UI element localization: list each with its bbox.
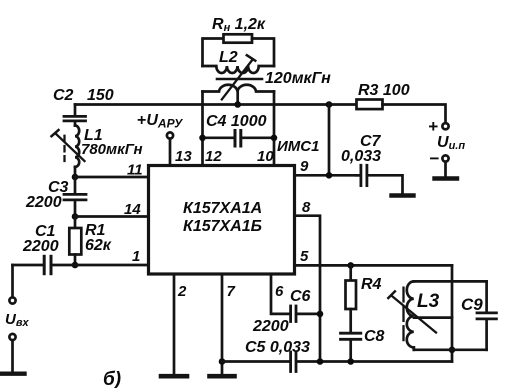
svg-text:1: 1 <box>132 248 140 265</box>
svg-text:R3 100: R3 100 <box>358 82 410 99</box>
node dot R4 top <box>347 262 354 269</box>
svg-text:11: 11 <box>127 162 143 179</box>
wire pin 1 right part <box>51 264 148 267</box>
core of L3 (dashed) <box>402 288 404 343</box>
wire input drop <box>11 265 14 298</box>
node dot C4 left <box>199 135 206 142</box>
svg-text:150: 150 <box>87 87 114 104</box>
svg-text:0,033: 0,033 <box>341 148 381 165</box>
svg-text:10: 10 <box>257 148 274 165</box>
svg-text:C5 0,033: C5 0,033 <box>245 339 310 356</box>
node dot rail to pin9 branch <box>326 101 333 108</box>
wire L3 branch right vertical <box>451 265 454 361</box>
capacitor C4 <box>203 131 275 147</box>
svg-text:Uи.п: Uи.п <box>437 134 465 152</box>
svg-text:C2: C2 <box>53 87 74 104</box>
svg-text:6: 6 <box>275 283 284 300</box>
capacitor C7 <box>356 165 403 194</box>
wire minus terminal to ground <box>444 162 447 177</box>
svg-text:120мкГн: 120мкГн <box>265 70 331 87</box>
node dot bottom rail R4 <box>347 358 354 365</box>
wire pin 9 <box>295 174 360 177</box>
ground Uвх <box>2 372 25 376</box>
capacitor C1 <box>44 256 51 273</box>
capacitor C8 <box>341 333 361 361</box>
svg-text:62к: 62к <box>85 237 112 254</box>
terminal Uвх top <box>9 297 15 303</box>
resistor R4 <box>346 265 357 331</box>
svg-text:9: 9 <box>300 158 309 175</box>
arrow of L2 <box>222 55 256 99</box>
svg-text:7: 7 <box>227 283 236 300</box>
arrow of L3 <box>388 291 436 332</box>
svg-text:8: 8 <box>302 199 311 216</box>
terminal Uвх bottom <box>9 334 15 340</box>
wire pin 10 vertical <box>273 92 276 166</box>
core of L2 <box>217 78 262 81</box>
ground pin 7 <box>210 374 235 379</box>
node dot C4 right <box>271 135 278 142</box>
terminal +Uип <box>442 123 448 129</box>
node dot L2 tap <box>234 101 241 108</box>
op-amp / IC U1 К157ХА1А <box>149 166 295 275</box>
node dot pin7 rail <box>219 358 226 365</box>
svg-text:780мкГн: 780мкГн <box>81 141 143 158</box>
svg-text:C4 1000: C4 1000 <box>206 113 267 130</box>
wire L2 center tap <box>236 92 239 105</box>
wire pin 2 <box>173 274 176 374</box>
node dot L3 bottom <box>449 347 456 354</box>
node dot pin9 <box>326 172 333 179</box>
wire pin 14 <box>75 215 149 218</box>
ground Uип <box>435 176 458 180</box>
wire pin 13 <box>169 139 172 166</box>
wire to input ground <box>11 340 14 371</box>
node dot pin14 <box>72 213 79 220</box>
node dot pin1 <box>72 262 79 269</box>
capacitor C2 <box>64 105 86 126</box>
svg-text:К157ХА1А: К157ХА1А <box>183 200 262 217</box>
wire rail right to + terminal <box>383 105 446 124</box>
capacitor C6 <box>291 306 320 322</box>
resistor R3 <box>357 100 383 110</box>
resistor R1 <box>69 217 81 266</box>
svg-text:L3: L3 <box>417 291 440 312</box>
wire rail to pin9 vertical <box>328 105 331 176</box>
svg-text:−: − <box>429 149 439 168</box>
svg-text:R4: R4 <box>361 276 382 293</box>
capacitor C3 <box>64 177 86 217</box>
terminal +UАРУ <box>167 132 173 138</box>
wire pin 6 <box>271 274 289 314</box>
wire pin 11 <box>75 176 149 179</box>
svg-text:Uвх: Uвх <box>5 311 29 329</box>
inductor L2 transformer upper winding <box>203 66 275 73</box>
wire bottom rail left of C5 <box>222 360 289 363</box>
svg-text:C6: C6 <box>290 288 311 305</box>
svg-text:+UАРУ: +UАРУ <box>137 112 183 131</box>
svg-text:5: 5 <box>300 248 309 265</box>
svg-text:12: 12 <box>205 148 222 165</box>
core of L1 (dashed) <box>63 136 65 161</box>
capacitor C5 <box>291 352 296 372</box>
wire pin 12 vertical <box>201 92 204 166</box>
wire pin 5 <box>295 264 453 267</box>
arrow of L1 <box>52 130 85 161</box>
svg-text:2200: 2200 <box>252 318 289 335</box>
svg-text:ИМС1: ИМС1 <box>277 138 319 155</box>
svg-text:13: 13 <box>175 148 192 165</box>
svg-text:C8: C8 <box>364 328 385 345</box>
wire pin 1 left part <box>13 264 45 267</box>
svg-text:2: 2 <box>177 283 187 300</box>
capacitor C9 <box>477 281 496 349</box>
svg-text:К157ХА1Б: К157ХА1Б <box>183 218 262 235</box>
wire L3 bottom to C9 <box>414 348 487 351</box>
svg-text:2200: 2200 <box>22 238 59 255</box>
wire pin 7 <box>221 274 224 374</box>
ground C7 <box>392 193 414 197</box>
ground pin 2 <box>161 374 187 379</box>
svg-text:б): б) <box>103 369 121 388</box>
svg-text:Rн 1,2к: Rн 1,2к <box>212 16 266 34</box>
svg-text:L2: L2 <box>219 49 238 66</box>
node dot bottom rail pin8 <box>317 358 324 365</box>
svg-text:2200: 2200 <box>25 194 62 211</box>
wire bottom rail right of C5 <box>297 360 452 363</box>
resistor Rн with top loop <box>203 34 275 66</box>
wire supply rail left segment <box>75 103 357 106</box>
inductor L3 <box>407 281 487 349</box>
svg-text:C9: C9 <box>461 295 483 314</box>
inductor L1 <box>75 126 79 178</box>
svg-text:14: 14 <box>124 201 141 218</box>
inductor L2 lower winding <box>203 85 275 92</box>
terminal -Uип <box>442 155 448 161</box>
wire pin 8 <box>295 216 321 362</box>
node dot C6 right <box>317 311 324 318</box>
node dot pin11 <box>72 174 79 181</box>
